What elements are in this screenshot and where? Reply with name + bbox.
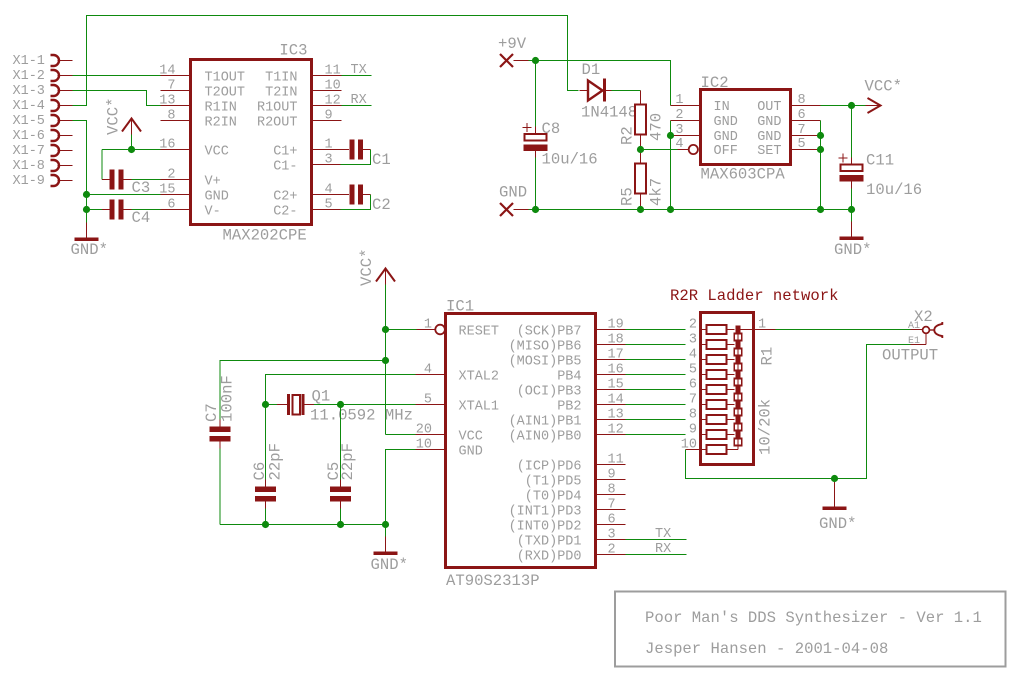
svg-text:RX: RX bbox=[351, 93, 367, 108]
capacitor C1 bbox=[349, 140, 363, 160]
connector pin X1-8 bbox=[51, 160, 73, 171]
capacitor C2 bbox=[349, 185, 363, 205]
svg-text:8: 8 bbox=[167, 109, 175, 124]
svg-text:C2: C2 bbox=[372, 196, 391, 214]
svg-text:X1-7: X1-7 bbox=[13, 144, 45, 159]
svg-text:C1+: C1+ bbox=[273, 145, 297, 160]
svg-text:C2+: C2+ bbox=[273, 190, 297, 205]
crystal Q1 bbox=[277, 394, 314, 415]
svg-text:R5: R5 bbox=[619, 187, 637, 206]
svg-text:8: 8 bbox=[608, 483, 616, 498]
IC3 pin 14 stub bbox=[161, 75, 191, 77]
IC3 pin 6 stub bbox=[161, 209, 191, 211]
IC3 pin 3 stub bbox=[312, 164, 341, 166]
wire C7 bottom to rail bbox=[219, 449, 221, 525]
R1 pin 1 lead bbox=[738, 329, 754, 331]
svg-text:4: 4 bbox=[424, 363, 432, 378]
svg-text:1: 1 bbox=[325, 138, 333, 153]
svg-text:(T0)PD4: (T0)PD4 bbox=[525, 490, 582, 505]
IC2 pin 5 stub bbox=[791, 149, 821, 151]
svg-text:11: 11 bbox=[608, 453, 624, 468]
IC1 pin 2 stub bbox=[596, 554, 626, 556]
svg-text:GND*: GND* bbox=[71, 241, 108, 259]
svg-text:VCC: VCC bbox=[205, 145, 229, 160]
svg-text:PB4: PB4 bbox=[557, 370, 581, 385]
svg-text:15: 15 bbox=[159, 183, 175, 198]
svg-text:11: 11 bbox=[325, 64, 341, 79]
IC1 pin 19 stub bbox=[596, 329, 626, 331]
svg-text:X1-6: X1-6 bbox=[13, 129, 45, 144]
wire R1 pin1 to X2 A1 bbox=[776, 329, 911, 331]
junction crystal left node bbox=[262, 401, 269, 408]
svg-text:(TXD)PD1: (TXD)PD1 bbox=[517, 535, 582, 550]
wire C3 right to IC3 pin 2 bbox=[132, 179, 161, 181]
capacitor C5 bbox=[330, 487, 351, 502]
junction IC2 pin5 bbox=[817, 146, 824, 153]
resistor network R1 body bbox=[701, 313, 754, 465]
wire VCC down to C11 bbox=[851, 106, 853, 158]
svg-text:MAX603CPA: MAX603CPA bbox=[701, 166, 786, 184]
svg-text:20: 20 bbox=[416, 423, 432, 438]
R1 internal resistor at pin 5 bbox=[701, 370, 735, 379]
svg-text:GND: GND bbox=[757, 115, 781, 130]
wire IC2 OUT to VCC arrow bbox=[821, 105, 866, 107]
svg-text:GND: GND bbox=[757, 130, 781, 145]
svg-text:19: 19 bbox=[608, 318, 624, 333]
svg-text:X1-3: X1-3 bbox=[13, 84, 45, 99]
ground symbol (output) bbox=[823, 492, 847, 511]
wire crystal left lead net bbox=[266, 404, 278, 406]
microcontroller IC1 AT90S2313P body bbox=[446, 314, 596, 568]
junction GND rail at C8 bbox=[532, 206, 539, 213]
wire VCC down to C3 bbox=[101, 150, 103, 180]
svg-text:2: 2 bbox=[167, 168, 175, 183]
svg-text:E1: E1 bbox=[908, 336, 920, 347]
wire net TX at IC1 TXD bbox=[626, 539, 687, 541]
IC3 pin 1 stub bbox=[312, 149, 350, 151]
svg-text:VCC*: VCC* bbox=[358, 249, 376, 286]
R1 internal resistor at pin 9 bbox=[701, 430, 735, 439]
svg-text:X1-2: X1-2 bbox=[13, 69, 45, 84]
svg-text:(AIN1)PB1: (AIN1)PB1 bbox=[509, 415, 582, 430]
svg-text:(INT1)PD3: (INT1)PD3 bbox=[509, 505, 582, 520]
IC3 pin 8 stub bbox=[161, 120, 191, 122]
wire C1 return to IC3 pin 3 bbox=[341, 150, 371, 165]
svg-text:7: 7 bbox=[167, 79, 175, 94]
capacitor C6 leads bbox=[265, 480, 267, 509]
svg-text:Jesper Hansen - 2001-04-08: Jesper Hansen - 2001-04-08 bbox=[645, 640, 888, 658]
svg-text:R2: R2 bbox=[619, 126, 637, 145]
wire VCC to RESET pin bbox=[386, 329, 417, 331]
svg-text:GND: GND bbox=[714, 130, 738, 145]
svg-text:(MISO)PB6: (MISO)PB6 bbox=[509, 340, 582, 355]
wire rail to GND symbol bbox=[385, 525, 387, 537]
svg-text:1: 1 bbox=[675, 93, 683, 108]
svg-text:R1: R1 bbox=[759, 347, 777, 366]
svg-text:C3: C3 bbox=[132, 179, 151, 197]
wire IC1 PB to R1 row y=359 bbox=[626, 359, 686, 361]
svg-text:GND: GND bbox=[714, 115, 738, 130]
wire C6 to rail bbox=[265, 509, 267, 525]
R1 internal resistor at pin 7 bbox=[701, 400, 735, 409]
svg-text:VCC*: VCC* bbox=[105, 98, 123, 135]
wire IC1 PB to R1 row y=374 bbox=[626, 374, 686, 376]
wire IC1 PB to R1 row y=404 bbox=[626, 404, 686, 406]
capacitor C11 (polarized) bbox=[839, 154, 864, 182]
svg-text:XTAL1: XTAL1 bbox=[459, 400, 500, 415]
wire IC1 PB to R1 row y=434 bbox=[626, 434, 686, 436]
svg-text:14: 14 bbox=[608, 393, 624, 408]
svg-text:14: 14 bbox=[159, 64, 175, 79]
svg-text:15: 15 bbox=[608, 378, 624, 393]
svg-text:X1-4: X1-4 bbox=[13, 99, 45, 114]
svg-text:OUTPUT: OUTPUT bbox=[882, 347, 938, 365]
ground symbol under X1/C4 bbox=[75, 223, 99, 242]
svg-text:8: 8 bbox=[689, 408, 697, 423]
junction +9V at C8 bbox=[532, 57, 539, 64]
title block frame bbox=[615, 592, 1006, 667]
svg-text:(SCK)PB7: (SCK)PB7 bbox=[517, 325, 582, 340]
IC1 pin 13 stub bbox=[596, 419, 626, 421]
svg-text:GND: GND bbox=[499, 184, 527, 202]
power symbol VCC at IC3 bbox=[122, 119, 141, 135]
svg-text:X1-1: X1-1 bbox=[13, 54, 45, 69]
junction GND rail at IC2 left bbox=[667, 206, 674, 213]
wire IC1 GND pin 10 to rail bbox=[386, 450, 416, 525]
svg-text:22pF: 22pF bbox=[339, 443, 357, 480]
svg-text:12: 12 bbox=[608, 423, 624, 438]
svg-text:6: 6 bbox=[798, 108, 806, 123]
IC1 pin 5 stub bbox=[416, 404, 446, 406]
svg-text:5: 5 bbox=[424, 393, 432, 408]
wire C2 return to IC3 pin 5 bbox=[341, 195, 371, 210]
svg-text:VCC*: VCC* bbox=[865, 78, 902, 96]
IC3 pin 7 stub bbox=[161, 90, 191, 92]
IC1 pin 9 stub bbox=[596, 479, 626, 481]
wire C11 to GND rail bbox=[851, 189, 853, 210]
svg-text:TX: TX bbox=[655, 527, 671, 542]
svg-text:SET: SET bbox=[757, 144, 781, 159]
IC3 pin 13 stub bbox=[161, 105, 191, 107]
wire crystal right lead net bbox=[314, 404, 341, 406]
IC3 pin 2 stub bbox=[161, 179, 191, 181]
svg-text:R2OUT: R2OUT bbox=[257, 116, 298, 131]
svg-text:10: 10 bbox=[681, 438, 697, 453]
svg-text:100nF: 100nF bbox=[219, 375, 237, 422]
svg-text:IN: IN bbox=[714, 100, 730, 115]
svg-text:7: 7 bbox=[608, 498, 616, 513]
regulator IC2 MAX603CPA body bbox=[701, 90, 791, 165]
IC1 pin 11 stub bbox=[596, 464, 626, 466]
svg-text:(INT0)PD2: (INT0)PD2 bbox=[509, 520, 582, 535]
IC1 pin 20 stub bbox=[416, 434, 446, 436]
svg-text:13: 13 bbox=[608, 408, 624, 423]
svg-text:(T1)PD5: (T1)PD5 bbox=[525, 475, 582, 490]
svg-text:IC1: IC1 bbox=[446, 298, 474, 316]
wire IC1 XTAL1 to crystal bbox=[341, 404, 416, 406]
wire +9V down to C8 bbox=[535, 61, 537, 127]
junction GND row pin15 bbox=[83, 191, 90, 198]
svg-text:+9V: +9V bbox=[498, 35, 527, 53]
svg-text:9: 9 bbox=[325, 109, 333, 124]
junction output ground at GND symbol bbox=[831, 475, 838, 482]
capacitor C7 leads bbox=[219, 420, 221, 449]
junction VCC to RESET bbox=[382, 326, 389, 333]
C1 lead bbox=[363, 149, 371, 151]
IC3 pin 11 stub bbox=[312, 75, 342, 77]
svg-text:10: 10 bbox=[325, 79, 341, 94]
svg-text:4k7: 4k7 bbox=[648, 178, 666, 206]
wire net X1-2 to IC3 pin 14 bbox=[73, 75, 161, 77]
svg-text:IC3: IC3 bbox=[279, 42, 307, 60]
svg-text:10u/16: 10u/16 bbox=[866, 181, 922, 199]
svg-text:8: 8 bbox=[798, 93, 806, 108]
svg-text:GND*: GND* bbox=[371, 556, 408, 574]
svg-text:V-: V- bbox=[205, 205, 221, 220]
svg-text:1: 1 bbox=[758, 318, 766, 333]
ground symbol under IC1 bbox=[374, 537, 398, 556]
C8 leads bbox=[535, 127, 537, 158]
wire net RX at IC1 RXD bbox=[626, 554, 687, 556]
wire net RX at IC3 pin 12 bbox=[342, 105, 372, 107]
capacitor C3 leads bbox=[102, 179, 132, 181]
svg-text:2: 2 bbox=[675, 108, 683, 123]
capacitor C3 bbox=[110, 170, 124, 190]
diode D1 1N4148 bbox=[580, 79, 612, 102]
svg-text:16: 16 bbox=[608, 363, 624, 378]
wire VCC symbol to junction bbox=[131, 135, 133, 150]
R1 series chain bbox=[734, 326, 741, 450]
svg-text:OFF: OFF bbox=[714, 144, 738, 159]
wire IC1 VCC pin 20 bbox=[386, 434, 416, 436]
resistor R5 body bbox=[635, 150, 646, 210]
R1 internal resistor at pin 2 bbox=[701, 325, 735, 334]
IC2 pin 3 stub bbox=[671, 135, 701, 137]
svg-text:17: 17 bbox=[608, 348, 624, 363]
wire IC1 XTAL2 to crystal bbox=[266, 375, 416, 405]
connector pin X1-1 bbox=[51, 55, 73, 66]
IC3 pin 4 stub bbox=[312, 194, 350, 196]
supply GND open-pin cross bbox=[500, 203, 529, 216]
svg-text:(MOSI)PB5: (MOSI)PB5 bbox=[509, 355, 582, 370]
svg-text:OUT: OUT bbox=[757, 100, 781, 115]
wire net X1-5 / GND vertical bbox=[73, 121, 87, 223]
wire IC1 PB to R1 row y=329 bbox=[626, 329, 686, 331]
svg-text:RX: RX bbox=[655, 542, 671, 557]
svg-text:T1OUT: T1OUT bbox=[205, 71, 246, 86]
R1 internal resistor at pin 10 bbox=[701, 445, 739, 454]
wire IC2 pins 6,7,5 vertical to GND bbox=[820, 121, 822, 210]
IC1 pin 10 stub bbox=[416, 449, 446, 451]
svg-text:AT90S2313P: AT90S2313P bbox=[446, 572, 540, 590]
IC3 pin 9 stub bbox=[312, 120, 342, 122]
ground symbol right (under C11) bbox=[840, 222, 864, 241]
capacitor C4 bbox=[110, 200, 124, 220]
svg-text:R2R Ladder network: R2R Ladder network bbox=[670, 287, 838, 305]
IC1 pin 4 stub bbox=[416, 374, 446, 376]
IC1 pin 12 stub bbox=[596, 434, 626, 436]
IC1 pin 3 stub bbox=[596, 539, 626, 541]
wire crystal left to C6 bbox=[265, 405, 267, 480]
junction rail C5 bbox=[337, 521, 344, 528]
svg-text:R1OUT: R1OUT bbox=[257, 101, 298, 116]
wire net X1-4 top wire to D1 anode bbox=[73, 16, 579, 106]
R1 internal resistor at pin 4 bbox=[701, 355, 735, 364]
IC3 pin 16 stub bbox=[161, 149, 191, 151]
junction GND rail at C11 bbox=[848, 206, 855, 213]
svg-text:GND: GND bbox=[205, 190, 229, 205]
wire GND rail horizontal bbox=[529, 209, 852, 211]
wire C5 to rail bbox=[340, 509, 342, 525]
R1 pin 10 stub bbox=[686, 449, 701, 451]
svg-text:X1-9: X1-9 bbox=[13, 174, 45, 189]
svg-text:22pF: 22pF bbox=[267, 443, 285, 480]
svg-text:GND*: GND* bbox=[819, 515, 856, 533]
svg-text:Q1: Q1 bbox=[312, 388, 331, 406]
svg-text:7: 7 bbox=[798, 123, 806, 138]
svg-text:(OCI)PB3: (OCI)PB3 bbox=[517, 385, 582, 400]
IC1 RESET pin bubble bbox=[417, 325, 445, 335]
power symbol VCC at IC1 bbox=[376, 269, 395, 285]
svg-text:2: 2 bbox=[608, 543, 616, 558]
connector pin X1-2 bbox=[51, 70, 73, 81]
connector pin X1-4 bbox=[51, 100, 73, 111]
svg-text:IC2: IC2 bbox=[701, 74, 729, 92]
svg-text:5: 5 bbox=[325, 198, 333, 213]
junction R2/R5/OFF node bbox=[637, 146, 644, 153]
wire IC1 PB to R1 row y=419 bbox=[626, 419, 686, 421]
IC2 pin 4 inverted bubble bbox=[678, 145, 698, 154]
svg-text:3: 3 bbox=[608, 528, 616, 543]
capacitor C7 bbox=[210, 427, 231, 442]
svg-text:10: 10 bbox=[416, 438, 432, 453]
svg-text:GND*: GND* bbox=[834, 241, 871, 259]
wire crystal right to C5 bbox=[340, 405, 342, 480]
connector pin X1-5 bbox=[51, 115, 73, 126]
wire IC1 PB to R1 row y=389 bbox=[626, 389, 686, 391]
svg-text:MAX202CPE: MAX202CPE bbox=[223, 227, 307, 245]
IC1 pin 18 stub bbox=[596, 344, 626, 346]
svg-text:C2-: C2- bbox=[273, 205, 297, 220]
IC2 pin 6 stub bbox=[791, 120, 821, 122]
wire +9V to IC2 IN bbox=[529, 61, 671, 106]
capacitor C4 leads bbox=[102, 209, 132, 211]
C2 lead bbox=[363, 194, 371, 196]
svg-text:9: 9 bbox=[689, 423, 697, 438]
IC1 pin 15 stub bbox=[596, 389, 626, 391]
ground symbol under output wire bbox=[834, 479, 836, 492]
wire ground rail under crystal bbox=[220, 524, 386, 526]
IC1 pin 8 stub bbox=[596, 494, 626, 496]
svg-text:10/20k: 10/20k bbox=[757, 399, 775, 455]
IC1 pin 7 stub bbox=[596, 509, 626, 511]
wire R1 pin10 to X2 E1 / GND bbox=[686, 345, 911, 479]
R1 internal resistor at pin 6 bbox=[701, 385, 735, 394]
IC2 pin 2 stub bbox=[671, 120, 701, 122]
connector X2 jack bbox=[911, 322, 943, 345]
svg-text:10u/16: 10u/16 bbox=[542, 151, 598, 169]
svg-text:16: 16 bbox=[159, 138, 175, 153]
IC3 pin 10 stub bbox=[312, 90, 342, 92]
wire IC1 PB to R1 row y=344 bbox=[626, 344, 686, 346]
svg-text:R1IN: R1IN bbox=[205, 101, 237, 116]
junction VCC to C7 bbox=[382, 357, 389, 364]
R1 internal resistor at pin 8 bbox=[701, 415, 735, 424]
wire D1 cathode to R2 bbox=[612, 90, 641, 92]
svg-text:12: 12 bbox=[325, 94, 341, 109]
svg-text:18: 18 bbox=[608, 333, 624, 348]
svg-text:9: 9 bbox=[608, 468, 616, 483]
junction VCC at IC3 pin 16 wire bbox=[128, 146, 135, 153]
svg-text:11.0592 MHz: 11.0592 MHz bbox=[310, 407, 413, 425]
svg-text:7: 7 bbox=[689, 393, 697, 408]
IC3 pin 12 stub bbox=[312, 105, 342, 107]
svg-text:5: 5 bbox=[689, 363, 697, 378]
svg-text:(AIN0)PB0: (AIN0)PB0 bbox=[509, 430, 582, 445]
svg-text:T1IN: T1IN bbox=[265, 71, 297, 86]
svg-text:T2IN: T2IN bbox=[265, 86, 297, 101]
svg-text:3: 3 bbox=[675, 123, 683, 138]
connector pin X1-3 bbox=[51, 85, 73, 96]
svg-text:C4: C4 bbox=[132, 209, 151, 227]
svg-text:5: 5 bbox=[798, 137, 806, 152]
svg-text:D1: D1 bbox=[582, 61, 601, 79]
svg-text:470: 470 bbox=[648, 113, 666, 141]
svg-text:6: 6 bbox=[167, 198, 175, 213]
svg-text:1N4148: 1N4148 bbox=[581, 104, 637, 122]
svg-text:TX: TX bbox=[351, 63, 367, 78]
supply +9V open-pin cross bbox=[500, 54, 529, 67]
junction IC2 pin3 GND bbox=[667, 132, 674, 139]
svg-text:R2IN: R2IN bbox=[205, 116, 237, 131]
junction GND rail at IC2 right bbox=[817, 206, 824, 213]
wire net X1-3 to IC3 pin 13 bbox=[73, 91, 161, 106]
svg-text:C1-: C1- bbox=[273, 160, 297, 175]
op-amp IC3 MAX202CPE body bbox=[191, 60, 312, 225]
wire C8 to GND rail bbox=[535, 158, 537, 210]
svg-text:C1: C1 bbox=[372, 151, 391, 169]
svg-text:6: 6 bbox=[689, 378, 697, 393]
wire GND to IC3 pin 15 bbox=[87, 194, 161, 196]
wire GND rail to GND symbol (right) bbox=[851, 210, 853, 222]
IC1 pin 16 stub bbox=[596, 374, 626, 376]
connector pin X1-7 bbox=[51, 145, 73, 156]
wire net TX at IC3 pin 11 bbox=[342, 75, 372, 77]
IC2 pin 1 stub bbox=[671, 105, 701, 107]
IC3 pin 15 stub bbox=[161, 194, 191, 196]
svg-text:T2OUT: T2OUT bbox=[205, 86, 246, 101]
capacitor C5 leads bbox=[340, 480, 342, 509]
junction rail GND stem bbox=[382, 521, 389, 528]
junction rail C6 bbox=[262, 521, 269, 528]
svg-text:A1: A1 bbox=[908, 321, 920, 332]
wire VCC vertical at IC1 bbox=[385, 285, 387, 435]
junction GND rail at R5 bbox=[637, 206, 644, 213]
svg-text:(RXD)PD0: (RXD)PD0 bbox=[517, 550, 582, 565]
R1 internal resistor at pin 3 bbox=[701, 340, 735, 349]
wire C4 right to IC3 pin 6 bbox=[132, 209, 161, 211]
svg-text:C11: C11 bbox=[866, 152, 894, 170]
wire node to IC2 OFF pin bbox=[641, 149, 678, 151]
resistor R2 body bbox=[635, 91, 646, 150]
svg-text:1: 1 bbox=[424, 318, 432, 333]
C11 leads bbox=[851, 158, 853, 189]
svg-text:2: 2 bbox=[689, 318, 697, 333]
IC2 pin 8 stub bbox=[791, 105, 821, 107]
connector pin X1-9 bbox=[51, 175, 73, 186]
capacitor C6 bbox=[255, 487, 276, 502]
svg-text:Poor Man's DDS Synthesizer - V: Poor Man's DDS Synthesizer - Ver 1.1 bbox=[645, 609, 982, 627]
